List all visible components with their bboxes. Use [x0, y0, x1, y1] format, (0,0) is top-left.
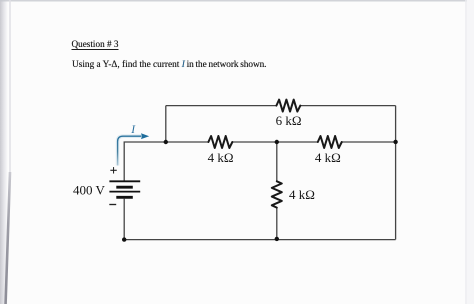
svg-text:I: I — [130, 124, 136, 136]
svg-text:4 kΩ: 4 kΩ — [208, 150, 234, 165]
svg-text:6 kΩ: 6 kΩ — [276, 113, 302, 128]
svg-text:4 kΩ: 4 kΩ — [289, 187, 315, 202]
svg-text:+: + — [110, 162, 117, 177]
svg-text:4 kΩ: 4 kΩ — [315, 150, 341, 165]
svg-text:400 V: 400 V — [73, 182, 106, 197]
